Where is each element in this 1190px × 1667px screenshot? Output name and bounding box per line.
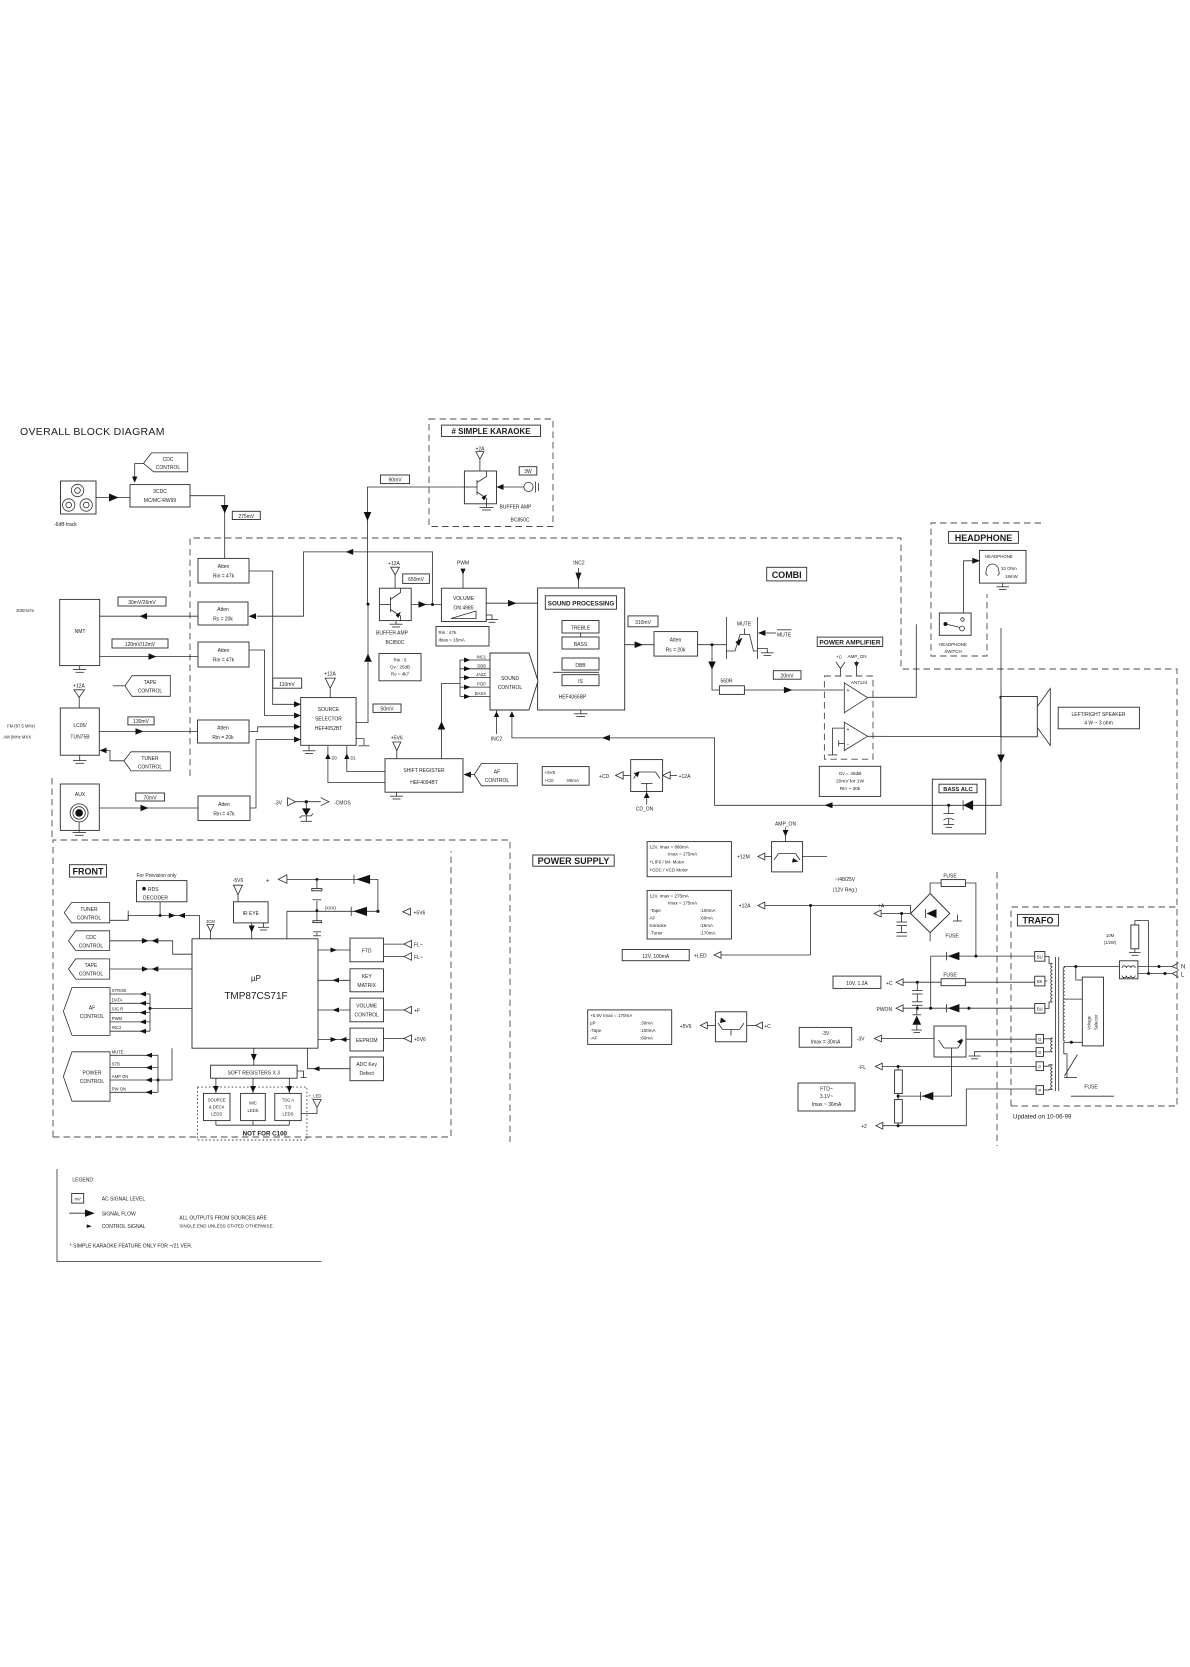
box KEY MATRIX xyxy=(350,969,384,992)
svg-text:INC2: INC2 xyxy=(491,737,503,743)
transistor MUTE switch xyxy=(726,617,757,659)
svg-text:90mV: 90mV xyxy=(388,478,402,484)
node +C regulator out xyxy=(747,1022,771,1030)
svg-text:mV: mV xyxy=(75,1197,81,1202)
svg-text:+12A: +12A xyxy=(739,904,751,910)
box tuner LC05 TUN75 xyxy=(60,708,99,755)
terminal P1 xyxy=(1036,1062,1043,1071)
node POP input xyxy=(460,682,490,690)
flag POWER CONTROL front xyxy=(63,1052,110,1101)
legend frame xyxy=(57,1169,321,1262)
box 5V9 spec xyxy=(588,1010,672,1045)
wire G1 from regulator xyxy=(966,1038,1036,1040)
wire filter to L xyxy=(1138,972,1172,975)
svg-text:+5V6: +5V6 xyxy=(545,770,556,775)
svg-text:32 Ohm: 32 Ohm xyxy=(1001,566,1017,571)
svg-text:BC850C: BC850C xyxy=(511,518,530,524)
terminal P2 xyxy=(1036,1086,1043,1095)
svg-text:3.1V~: 3.1V~ xyxy=(820,1094,833,1100)
dashed power amp box xyxy=(824,676,873,759)
svg-text:Rin = 47k: Rin = 47k xyxy=(213,658,235,664)
svg-text:BUFFER AMP: BUFFER AMP xyxy=(376,631,409,637)
box Atten3 Rin 47k (tape) xyxy=(198,642,249,667)
wire volume control to uP xyxy=(318,1008,350,1013)
wire bridge to fuse xyxy=(930,883,941,894)
label 650mV xyxy=(403,574,430,584)
flag TUNER CONTROL xyxy=(100,748,171,771)
svg-text:18mW: 18mW xyxy=(1005,574,1019,579)
svg-text:AC SIGNAL LEVEL: AC SIGNAL LEVEL xyxy=(102,1197,146,1203)
svg-text:CONTROL: CONTROL xyxy=(80,1014,105,1020)
capacitor smoothing ps xyxy=(897,914,908,937)
svg-text:CONTROL: CONTROL xyxy=(77,916,102,922)
flag AF CONTROL front xyxy=(63,988,110,1036)
ground karaoke xyxy=(480,504,494,510)
wire R divider xyxy=(897,1067,900,1126)
svg-text:FUSE: FUSE xyxy=(943,973,957,979)
svg-text:CONTROL: CONTROL xyxy=(80,1079,105,1085)
box IS xyxy=(562,675,599,686)
diode D2 front xyxy=(287,907,378,916)
ground sound processing xyxy=(574,710,588,717)
svg-text:Rs = 20k: Rs = 20k xyxy=(666,648,686,654)
svg-text:Imax ~ 36mA: Imax ~ 36mA xyxy=(812,1102,842,1108)
svg-text:FUSE: FUSE xyxy=(945,934,959,940)
svg-text:-3V: -3V xyxy=(857,1037,865,1043)
svg-text:FUSE: FUSE xyxy=(1084,1085,1098,1091)
svg-text:3CDC: 3CDC xyxy=(153,489,167,495)
ground selector right xyxy=(356,739,369,746)
svg-text:12V, 100mA: 12V, 100mA xyxy=(642,954,670,960)
svg-text:D0: D0 xyxy=(332,756,338,761)
svg-text:DBB: DBB xyxy=(575,663,586,669)
diode D1 front xyxy=(354,875,370,884)
svg-text:+: + xyxy=(266,879,270,885)
box -3V spec xyxy=(799,1027,852,1047)
node +5V6 eeprom xyxy=(384,1035,427,1043)
wire SP to atten6 xyxy=(625,641,654,648)
ground mute xyxy=(757,649,773,656)
capacitor C1 front xyxy=(312,879,322,912)
svg-text:Voltage: Voltage xyxy=(1087,1015,1092,1030)
box Atten5 Rin 47k (aux) xyxy=(198,796,250,821)
svg-text:CDC: CDC xyxy=(86,935,97,941)
wire tuner out xyxy=(99,728,197,734)
wire rec path from y551 line into Atten2 xyxy=(257,549,433,616)
svg-text:G: G xyxy=(1038,1037,1041,1042)
label 30mV/26mV xyxy=(118,597,166,606)
terminal BU2 xyxy=(1035,1004,1045,1014)
terminal BU1 xyxy=(1035,952,1045,962)
box SHIFT REGISTER HEF4094BT xyxy=(385,759,463,793)
svg-text:(1/2W): (1/2W) xyxy=(1104,940,1117,945)
wire primary top to filter xyxy=(1064,965,1120,968)
wire volume node up to rec line xyxy=(432,552,434,605)
box VOLUME ON 4985 xyxy=(441,588,486,621)
svg-text:30mV/26mV: 30mV/26mV xyxy=(128,600,156,606)
svg-text:AMP_ON: AMP_ON xyxy=(848,654,867,659)
POWER bus wires xyxy=(110,1048,172,1095)
svg-text:& DECK: & DECK xyxy=(209,1105,225,1110)
svg-text:HEADPHONE: HEADPHONE xyxy=(985,554,1013,559)
transistor AMP_ON supply xyxy=(772,842,827,872)
svg-text:N: N xyxy=(1181,965,1185,971)
node CD_ON xyxy=(636,792,654,813)
svg-text:CD_ON: CD_ON xyxy=(636,807,654,813)
wire uP to FTD xyxy=(318,948,350,953)
svg-text:120mV/12mV: 120mV/12mV xyxy=(125,642,156,648)
svg-text:7SG A: 7SG A xyxy=(282,1098,294,1103)
svg-text:* SIMPLE KARAOKE FEATURE ONLY: * SIMPLE KARAOKE FEATURE ONLY FOR ~/21 V… xyxy=(70,1243,192,1249)
svg-text:−: − xyxy=(847,743,850,749)
LED bottom bus xyxy=(216,1121,289,1126)
node INC1 input xyxy=(460,655,490,663)
perpendicular symbol bridge xyxy=(953,915,962,922)
svg-text:-Tape: -Tape xyxy=(650,908,662,913)
svg-text:130mV: 130mV xyxy=(133,719,150,725)
svg-text:P: P xyxy=(1038,1088,1041,1093)
svg-text:POWER: POWER xyxy=(83,1071,102,1077)
capacitor C2 front xyxy=(313,911,322,936)
transistor buffer amp Q karaoke xyxy=(464,471,496,504)
svg-text:-FL: -FL xyxy=(859,1065,867,1071)
svg-text:12V, Imax = 880mA: 12V, Imax = 880mA xyxy=(650,845,689,850)
diode bass alc xyxy=(932,800,985,810)
svg-text:NOT FOR C100: NOT FOR C100 xyxy=(243,1131,288,1138)
power -5V6 IR xyxy=(233,878,244,902)
svg-text:+12A: +12A xyxy=(679,774,691,780)
label 310mV xyxy=(628,616,658,627)
op-amp U2 xyxy=(844,722,867,752)
svg-text:CONTROL: CONTROL xyxy=(485,778,510,784)
microphone input xyxy=(497,482,539,493)
box sound processing HEF4066BP xyxy=(538,588,625,710)
wires soft reg to LED boxes xyxy=(213,1078,292,1093)
svg-text:-CMOS: -CMOS xyxy=(334,801,351,807)
svg-text:10M: 10M xyxy=(1106,933,1115,938)
box Atten2 Rs 20k (rec) xyxy=(198,602,248,625)
box 12V 100mA xyxy=(622,950,689,961)
label 70mV xyxy=(136,793,165,801)
node AMP_ON label ps xyxy=(775,822,797,842)
wire bass alc feedback into pentagon xyxy=(509,711,932,808)
svg-text:BASS: BASS xyxy=(475,691,486,696)
terminal G2 xyxy=(1036,1048,1043,1057)
svg-text:MUTE: MUTE xyxy=(112,1049,124,1054)
svg-text:+CD: +CD xyxy=(599,774,610,780)
transformer primary winding xyxy=(1063,967,1065,1041)
wire AUX out xyxy=(99,805,198,811)
svg-text:Atten: Atten xyxy=(218,802,230,808)
svg-text:PW ON: PW ON xyxy=(112,1086,126,1091)
ground G2 xyxy=(969,1052,1037,1059)
box SOFT REGISTERS X 3 xyxy=(211,1065,298,1078)
bridge rectifier xyxy=(911,894,960,940)
wire selector top tap xyxy=(1076,967,1083,981)
svg-text:LEGEND:: LEGEND: xyxy=(72,1178,94,1184)
label 50mV xyxy=(373,704,401,713)
node + battery line xyxy=(266,875,378,885)
svg-text:VOLUME: VOLUME xyxy=(453,596,475,602)
svg-text:Ro = 4k7: Ro = 4k7 xyxy=(391,672,410,677)
svg-text:PWM: PWM xyxy=(457,560,469,566)
svg-text:ALL OUTPUTS FROM SOURCES ARE: ALL OUTPUTS FROM SOURCES ARE xyxy=(179,1216,267,1222)
svg-text:G: G xyxy=(1038,1050,1041,1055)
svg-text:20mV: 20mV xyxy=(780,673,794,679)
svg-text:TMP87CS71F: TMP87CS71F xyxy=(224,991,287,1002)
wire bridge bottom stub xyxy=(929,933,931,942)
resistor R2 ps xyxy=(895,1100,903,1123)
svg-text:CONTROL: CONTROL xyxy=(138,689,163,695)
box Atten6 Rs 20k xyxy=(654,632,698,657)
wire CD to 3CDC with arrow xyxy=(96,494,130,502)
node D0 D1 selector data xyxy=(325,746,385,783)
svg-text:COMBI: COMBI xyxy=(772,570,802,580)
wire uP to soft registers xyxy=(251,1048,257,1065)
fuse F1 xyxy=(941,874,965,887)
transformer secondary winding bottom xyxy=(1044,1065,1053,1090)
svg-text:Imax = 175mA: Imax = 175mA xyxy=(668,852,697,857)
wire soft reg stub right xyxy=(297,1071,303,1078)
wire tuner bus xyxy=(110,911,200,939)
wire cdc to uP xyxy=(110,938,192,954)
svg-text:POWER SUPPLY: POWER SUPPLY xyxy=(538,856,610,866)
svg-text:650mV: 650mV xyxy=(408,577,425,583)
wire CDC CONTROL to 3CDC xyxy=(132,463,137,482)
box SOURCE DECK LEDS xyxy=(204,1093,231,1120)
speaker LEFT/RIGHT xyxy=(1001,689,1051,746)
wire battery to uP xyxy=(286,911,288,939)
node +CD xyxy=(599,772,631,780)
svg-text:SWITCH: SWITCH xyxy=(944,649,961,654)
svg-text:OVERALL BLOCK DIAGRAM: OVERALL BLOCK DIAGRAM xyxy=(20,426,165,438)
wire eeprom to uP xyxy=(318,1037,350,1042)
svg-text:+12A: +12A xyxy=(73,683,85,689)
wire adc key to uP xyxy=(308,1048,350,1071)
label HEADPHONE xyxy=(949,532,1019,544)
svg-text:110mV: 110mV xyxy=(279,682,295,688)
wire 3CDC output to Atten1 xyxy=(190,496,229,559)
svg-text:TUNER: TUNER xyxy=(141,756,159,762)
svg-text:MATRIX: MATRIX xyxy=(357,983,376,989)
svg-text:-6dB track: -6dB track xyxy=(54,522,77,528)
svg-text:BUFFER AMP: BUFFER AMP xyxy=(500,505,533,511)
node speaker junction xyxy=(999,696,1002,699)
svg-text:+5V6: +5V6 xyxy=(414,1037,426,1043)
transistor 5V6 regulator xyxy=(715,1012,746,1042)
power +C PA xyxy=(836,654,845,676)
svg-text:STROB: STROB xyxy=(112,988,127,993)
svg-text:CONTROL SIGNAL: CONTROL SIGNAL xyxy=(102,1224,146,1230)
svg-text:For Prevision only: For Prevision only xyxy=(137,873,178,879)
terminal N xyxy=(1172,963,1185,971)
svg-text:TUNER: TUNER xyxy=(80,907,98,913)
wire op2 - input tick xyxy=(839,740,845,746)
svg-text:DECODER: DECODER xyxy=(143,896,168,902)
svg-text:ON 4985: ON 4985 xyxy=(453,606,473,612)
power +12A tuner xyxy=(73,683,85,708)
wire 560R to power amp xyxy=(744,687,824,694)
svg-text:SIGNAL FLOW: SIGNAL FLOW xyxy=(102,1212,136,1218)
dashed COMBI region outline xyxy=(190,538,1177,1106)
svg-text:Defect: Defect xyxy=(359,1071,374,1077)
svg-text:IR EYE: IR EYE xyxy=(243,911,260,917)
label LEFT/RIGHT SPEAKER xyxy=(1058,707,1139,729)
label 90mV xyxy=(381,475,410,484)
sound control input bus xyxy=(459,660,461,697)
svg-text:(XXX): (XXX) xyxy=(325,906,337,911)
wire speaker node down to bass alc xyxy=(986,628,1005,805)
wire Atten4 to selector in3 xyxy=(249,727,295,732)
ground deck xyxy=(73,666,87,673)
node -3V xyxy=(857,1035,934,1043)
svg-text:MC/MC-RW99: MC/MC-RW99 xyxy=(144,498,177,504)
capacitor bass alc xyxy=(944,805,955,827)
node +C to BK xyxy=(886,979,1035,987)
box voltage selector xyxy=(1082,977,1103,1046)
svg-text:BU: BU xyxy=(1037,955,1043,960)
wire Atten5 to selector in4 xyxy=(250,740,295,809)
svg-text:Ibias = 15mA: Ibias = 15mA xyxy=(439,638,465,643)
svg-text::15mA: :15mA xyxy=(700,923,713,928)
flag TUNER CONTROL front xyxy=(64,903,109,923)
svg-text:+: + xyxy=(847,688,850,694)
flag CDC CONTROL front xyxy=(69,931,110,951)
svg-text:Atten: Atten xyxy=(218,564,230,570)
svg-text:AF: AF xyxy=(494,770,500,776)
svg-text::80mA: :80mA xyxy=(566,778,579,783)
svg-text:Karaoke: Karaoke xyxy=(650,923,667,928)
node +5V6 front top xyxy=(403,908,426,916)
zener -3V clamp xyxy=(300,802,314,822)
node DBB input xyxy=(460,663,490,671)
svg-text:HEADPHONE: HEADPHONE xyxy=(939,642,967,647)
dashed HEADPHONE box xyxy=(931,523,1041,656)
wire IR EYE to uP xyxy=(249,923,255,939)
power +12A HF amp xyxy=(388,561,400,588)
svg-text:AMP ON: AMP ON xyxy=(112,1074,128,1079)
svg-text:LEDS: LEDS xyxy=(248,1108,259,1113)
box IR EYE xyxy=(234,902,269,923)
ground volume xyxy=(486,615,498,622)
wire 10M to mains xyxy=(1135,921,1149,974)
svg-text:SINGLE END UNLESS STATED OTHER: SINGLE END UNLESS STATED OTHERWISE. xyxy=(179,1223,274,1228)
label 275mV xyxy=(232,511,260,520)
svg-text:Rin : 5: Rin : 5 xyxy=(393,658,407,663)
box SOURCE SELECTOR HEF4052BT xyxy=(301,698,356,746)
label FUSE trafo xyxy=(1071,1085,1114,1097)
flag CDC CONTROL xyxy=(135,453,188,472)
box ADC Key Defect xyxy=(350,1057,384,1081)
svg-text:Rin = 47k: Rin = 47k xyxy=(213,812,235,818)
svg-text:CONTROL: CONTROL xyxy=(138,765,163,771)
svg-text::100mA: :100mA xyxy=(640,1028,656,1033)
svg-text:+12A: +12A xyxy=(388,561,400,567)
op-amp U1 AN7124 xyxy=(844,680,867,713)
svg-text:3CM: 3CM xyxy=(206,919,215,924)
wire op2 output to speaker xyxy=(868,735,1001,737)
svg-text:MIC: MIC xyxy=(249,1101,257,1106)
diode D5 on PWON line xyxy=(947,1004,960,1012)
svg-text:MUTE: MUTE xyxy=(737,622,752,628)
resistor R1 ps xyxy=(895,1070,903,1094)
node JAZZ input xyxy=(460,672,490,680)
svg-text:AN7124: AN7124 xyxy=(851,680,868,685)
svg-text:275mV: 275mV xyxy=(238,514,255,520)
svg-text:+_LED: +_LED xyxy=(309,1094,322,1099)
svg-text:SOURCE: SOURCE xyxy=(318,707,340,713)
wire shift register to volume control xyxy=(438,684,460,759)
svg-text:4 W ~ 3 ohm: 4 W ~ 3 ohm xyxy=(1084,721,1112,727)
node +12A into CD switch xyxy=(663,772,691,780)
box AUX input xyxy=(60,784,99,830)
svg-text:FL~: FL~ xyxy=(414,955,423,961)
terminal BK xyxy=(1035,976,1045,986)
svg-text:+5V6: +5V6 xyxy=(414,911,426,917)
transistor CD supply switch xyxy=(631,760,663,792)
node +2 xyxy=(861,1089,1036,1130)
wire selector mid tap xyxy=(1064,998,1083,1000)
svg-text:BK: BK xyxy=(1037,979,1043,984)
svg-text:IS: IS xyxy=(578,679,583,685)
node BASS input xyxy=(460,691,490,699)
svg-text:INC2: INC2 xyxy=(573,560,585,566)
svg-text:AMP_ON: AMP_ON xyxy=(775,822,797,828)
svg-text:JAZZ: JAZZ xyxy=(476,672,486,677)
svg-text:PWM: PWM xyxy=(112,1016,123,1021)
svg-text:EEPROM: EEPROM xyxy=(356,1038,378,1044)
svg-text:P: P xyxy=(1038,1064,1041,1069)
svg-text:+12A: +12A xyxy=(324,672,336,678)
svg-text:10V, 1.2A: 10V, 1.2A xyxy=(846,981,868,987)
svg-text:CONTROL: CONTROL xyxy=(354,1012,379,1018)
svg-text:HEF4066BP: HEF4066BP xyxy=(559,695,587,701)
wire rec arrow into Atten2 xyxy=(249,613,257,619)
svg-text:+C: +C xyxy=(836,654,843,659)
label PWM xyxy=(457,560,469,588)
svg-text:-3V: -3V xyxy=(822,1031,830,1037)
svg-text:Atten: Atten xyxy=(670,638,682,644)
svg-text:Rin ~ 30k: Rin ~ 30k xyxy=(840,786,861,792)
box MIC LEDS xyxy=(241,1093,266,1120)
svg-text:-3V: -3V xyxy=(274,801,282,807)
svg-text:BU: BU xyxy=(1037,1007,1043,1012)
box RDS DECODER xyxy=(137,881,187,902)
svg-text:-Tuner: -Tuner xyxy=(650,931,664,936)
svg-text:FRONT: FRONT xyxy=(73,866,104,876)
svg-text::100mA: :100mA xyxy=(700,908,716,913)
node +A xyxy=(874,904,911,918)
ground selector xyxy=(303,745,316,753)
resistor 560R xyxy=(719,679,744,695)
wire deck playback out xyxy=(100,653,198,659)
node FL~ outputs xyxy=(384,940,423,961)
svg-text:+: + xyxy=(847,727,850,733)
svg-text:POP: POP xyxy=(477,682,486,687)
power +5V6 shift register xyxy=(391,735,403,758)
ground tuner xyxy=(73,755,87,763)
svg-text:FTD: FTD xyxy=(362,949,372,955)
svg-text:T.S: T.S xyxy=(285,1105,291,1110)
box +5V6 +CD 80mA note xyxy=(542,767,589,786)
svg-text:AUX: AUX xyxy=(75,792,86,798)
box tape deck NMT xyxy=(60,599,100,665)
node -FL xyxy=(859,1063,1037,1071)
CD changer mechanism icon xyxy=(61,481,97,514)
label # SIMPLE KARAOKE xyxy=(442,425,541,436)
svg-text:BASS: BASS xyxy=(574,642,588,648)
transistor HF buffer amp BC850C xyxy=(379,588,411,620)
